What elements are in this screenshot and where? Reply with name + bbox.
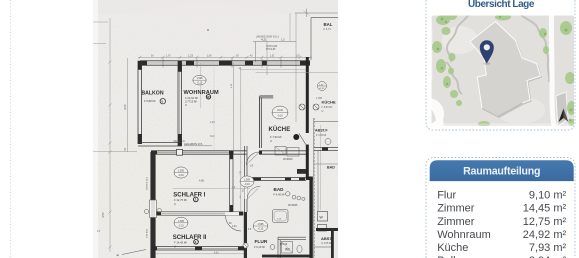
- level stamps: [174, 75, 288, 231]
- svg-text:1,76: 1,76: [166, 56, 171, 58]
- svg-text:SOHE B 04.1: SOHE B 04.1: [147, 176, 149, 190]
- paper: [93, 0, 338, 258]
- svg-text:Zimmer: Zimmer: [437, 216, 475, 228]
- svg-text:2,06: 2,06: [207, 56, 212, 58]
- svg-text:BAL: BAL: [324, 22, 333, 27]
- svg-text:F 3,65 M²: F 3,65 M²: [316, 134, 326, 137]
- balcony bottom wall: [138, 142, 182, 144]
- tick marks along top dim line: [139, 56, 312, 59]
- page dotted margin line: [10, 0, 12, 258]
- floor plan scan: [90, 0, 360, 258]
- svg-text:ABST: ABST: [321, 236, 332, 241]
- pin: [483, 62, 490, 64]
- svg-text:SCHLAFR I: SCHLAFR I: [173, 192, 205, 198]
- svg-text:-2,10: -2,10: [178, 224, 184, 227]
- central thick wall: [306, 57, 309, 133]
- svg-text:4,50: 4,50: [101, 212, 105, 218]
- svg-text:9,10 m²: 9,10 m²: [529, 190, 567, 202]
- svg-text:4,68: 4,68: [199, 180, 204, 183]
- svg-text:U: U: [322, 110, 324, 113]
- svg-text:±0,00: ±0,00: [277, 109, 284, 112]
- svg-text:Raumaufteilung: Raumaufteilung: [463, 166, 540, 178]
- svg-text:BAD: BAD: [274, 187, 285, 192]
- map: [415, 12, 578, 131]
- svg-text:U: U: [174, 202, 176, 206]
- white roads: [551, 14, 554, 127]
- svg-text:WOHNRAUM: WOHNRAUM: [184, 90, 220, 96]
- building shadow: [472, 23, 543, 118]
- card 1 dashed border: [426, 0, 575, 130]
- svg-text:-0,10: -0,10: [197, 82, 203, 85]
- svg-text:1,505: 1,505: [197, 77, 204, 80]
- corridor west wall: [244, 146, 246, 212]
- svg-text:F 3,71: F 3,71: [324, 27, 332, 31]
- svg-text:F 24,52 M²: F 24,52 M²: [185, 96, 198, 100]
- door kitchen gap: [247, 150, 260, 155]
- svg-text:-0,10: -0,10: [178, 174, 184, 177]
- svg-text:U: U: [174, 244, 176, 248]
- wc walls: [278, 236, 306, 238]
- svg-text:F 9,10 M²: F 9,10 M²: [254, 245, 265, 249]
- svg-text:1,9: 1,9: [250, 164, 254, 168]
- svg-text:1,505: 1,505: [244, 179, 251, 182]
- svg-text:Zimmer: Zimmer: [437, 203, 475, 215]
- svg-text:LEGAMON 27A: LEGAMON 27A: [184, 142, 203, 146]
- svg-text:Küche: Küche: [437, 242, 468, 254]
- svg-text:F 7,93 M²: F 7,93 M²: [270, 135, 282, 139]
- bottom exterior wall: [151, 246, 244, 248]
- svg-text:JAUNIS SOH 9.0.1: JAUNIS SOH 9.0.1: [256, 35, 279, 39]
- left dim verticals: [109, 18, 111, 252]
- building right of road: [556, 92, 568, 126]
- svg-text:24,92 m²: 24,92 m²: [523, 229, 567, 241]
- crossed small circles: [299, 104, 305, 110]
- svg-text:2: 2: [124, 148, 126, 152]
- schlafzimmer divider wall: [155, 211, 243, 213]
- card 2: [426, 158, 575, 258]
- svg-text:4,21: 4,21: [261, 38, 267, 42]
- top exterior wall: [138, 56, 312, 58]
- svg-text:1,505: 1,505: [258, 223, 265, 226]
- svg-text:4,50: 4,50: [123, 104, 127, 110]
- svg-text:B: B: [161, 99, 163, 103]
- svg-text:4,04: 4,04: [214, 252, 219, 254]
- svg-text:U: U: [270, 139, 272, 143]
- left margin ticks: [93, 22, 137, 151]
- svg-text:1,505: 1,505: [178, 170, 185, 173]
- svg-text:a): a): [117, 253, 120, 257]
- svg-text:FLUR: FLUR: [255, 239, 268, 245]
- svg-text:F 5,88 M²: F 5,88 M²: [144, 99, 156, 103]
- svg-text:F 3,05 M²: F 3,05 M²: [322, 242, 332, 245]
- svg-text:KÜCHE: KÜCHE: [322, 100, 337, 105]
- svg-text:7,93 m²: 7,93 m²: [529, 242, 567, 254]
- svg-text:12,75 m²: 12,75 m²: [523, 216, 567, 228]
- top-right balcony of neighbour: [295, 12, 338, 14]
- svg-text:U: U: [185, 103, 187, 107]
- schlafzimmer I east wall: [229, 154, 231, 212]
- svg-text:00 90/95: 00 90/95: [288, 204, 298, 207]
- left exterior wall: [150, 152, 152, 258]
- svg-text:1,23: 1,23: [188, 54, 194, 58]
- svg-text:KÜCHE: KÜCHE: [269, 126, 291, 133]
- svg-text:Wohnraum: Wohnraum: [437, 229, 491, 241]
- svg-text:F 4,45 M²: F 4,45 M²: [274, 192, 285, 196]
- building: [470, 22, 541, 117]
- svg-text:SCHLAFR II: SCHLAFR II: [173, 235, 207, 241]
- bathtub: [273, 210, 289, 223]
- svg-text:1,5: 1,5: [281, 38, 285, 42]
- balcony/wohnraum divider: [177, 61, 179, 146]
- svg-text:BALKON: BALKON: [141, 91, 163, 97]
- svg-text:1,505: 1,505: [178, 220, 185, 223]
- svg-text:-0,10: -0,10: [244, 183, 250, 186]
- svg-text:-0,10: -0,10: [319, 88, 325, 90]
- dimension lines mid: [232, 63, 234, 150]
- compass: [559, 109, 564, 123]
- bathroom walls: [247, 177, 306, 179]
- svg-text:1,51: 1,51: [270, 56, 275, 58]
- svg-text:2,00: 2,00: [232, 226, 237, 228]
- greens: [432, 12, 578, 127]
- svg-text:14,45 m²: 14,45 m²: [523, 203, 567, 215]
- svg-text:34,0: 34,0: [210, 136, 215, 138]
- svg-text:00 90/60: 00 90/60: [283, 158, 293, 161]
- svg-text:1,48: 1,48: [210, 122, 215, 124]
- bottom fade: [432, 124, 575, 127]
- svg-text:BAD: BAD: [327, 166, 335, 170]
- svg-text:Flur: Flur: [437, 190, 456, 202]
- svg-text:3,7715 M²: 3,7715 M²: [185, 100, 197, 104]
- svg-text:F 14,45 M²: F 14,45 M²: [174, 241, 187, 245]
- mid horizontal wall: [151, 150, 306, 152]
- svg-text:F 12,75 M²: F 12,75 M²: [174, 198, 187, 202]
- svg-text:17: 17: [97, 229, 101, 233]
- svg-text:17: 17: [248, 227, 252, 231]
- svg-text:ABST.F: ABST.F: [315, 129, 328, 133]
- svg-text:-0,10: -0,10: [258, 228, 264, 231]
- basin circles: [292, 195, 296, 199]
- svg-text:1,065: 1,065: [316, 97, 323, 100]
- wc shower square: [282, 242, 293, 254]
- balcony left wall: [137, 61, 139, 144]
- svg-text:Übersicht Lage: Übersicht Lage: [468, 0, 535, 10]
- window in left wall: [150, 200, 157, 218]
- kitchen nook wall: [259, 97, 261, 149]
- gray paths: [446, 14, 549, 94]
- svg-text:PH=2,80: PH=2,80: [266, 48, 276, 51]
- svg-text:9,05 KOL: 9,05 KOL: [147, 228, 149, 238]
- kitchen counter: [275, 147, 286, 156]
- svg-text:F 8,50 M²: F 8,50 M²: [322, 106, 333, 109]
- neighbour strip walls: [314, 121, 338, 123]
- svg-text:-0,10: -0,10: [277, 115, 283, 118]
